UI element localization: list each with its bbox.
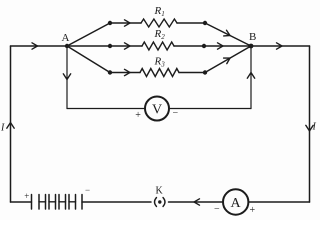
wire top-right from B to right edge (251, 45, 310, 47)
arrow up on left wire (7, 123, 14, 129)
svg-text:+: + (250, 205, 256, 216)
battery cell 2 plate A (45, 195, 47, 210)
svg-text:A: A (62, 32, 70, 44)
resistor R3 (140, 69, 179, 77)
wire left vertical (10, 46, 12, 202)
wire battery to key (82, 201, 151, 203)
arrow on branch2 right (218, 43, 224, 49)
wire diagonal branch3 to B (205, 46, 251, 73)
wire voltmeter horizontal left (67, 108, 145, 110)
svg-text:+: + (135, 110, 141, 121)
wire battery link 1 (39, 201, 46, 203)
svg-text:A: A (231, 196, 242, 211)
wire right vertical (309, 46, 311, 202)
battery cell 1 plate B (38, 195, 40, 210)
battery cell 2 plate B (48, 195, 50, 210)
arrow on diagonal branch1-B (224, 30, 230, 36)
svg-text:I: I (0, 123, 5, 134)
battery cell 1 plate A (31, 195, 33, 210)
svg-text:V: V (152, 103, 162, 118)
wire branch2 horizontal (67, 45, 251, 47)
arrow on top-left wire (32, 43, 38, 49)
arrow on branch1 (125, 20, 131, 26)
svg-text:B: B (249, 31, 256, 43)
svg-text:K: K (156, 186, 164, 197)
arrow down on right wire (306, 125, 313, 131)
battery cell 4 plate B (68, 195, 70, 210)
battery cell 4 plate A (65, 195, 67, 210)
svg-text:+: + (24, 191, 29, 201)
wire ammeter to right edge (248, 201, 309, 203)
wire voltmeter horizontal right (169, 108, 251, 110)
node dot branch3 left (108, 70, 112, 74)
arrow on branch2 left (125, 43, 131, 49)
resistor R2 (142, 42, 174, 50)
node B (249, 44, 254, 49)
voltmeter V circle (145, 97, 169, 121)
wire diagonal A to branch 3 (67, 46, 110, 73)
wire voltmeter branch right vertical (250, 46, 252, 109)
arrow up on voltmeter right vertical (247, 73, 254, 79)
wire branch3 horizontal (110, 72, 205, 74)
node dot branch1 left (108, 21, 112, 25)
battery cell 3 plate A (55, 195, 57, 210)
arrow on diagonal branch3-B (224, 58, 230, 64)
wire battery link 3 (59, 201, 66, 203)
arrow left on bottom wire (194, 199, 200, 205)
wire battery link 2 (49, 201, 56, 203)
wire branch1 horizontal (110, 22, 205, 24)
arrow down on voltmeter left vertical (63, 74, 70, 80)
wire bottom-left from left edge to battery (11, 201, 32, 203)
key K left contact arc (155, 198, 157, 207)
svg-text:−: − (214, 204, 220, 215)
resistor R1 (141, 19, 177, 27)
arrow on branch3 (125, 69, 131, 75)
svg-text:−: − (173, 108, 179, 119)
wire voltmeter branch left vertical (66, 46, 68, 109)
svg-text:I: I (312, 122, 317, 133)
key K right contact arc (163, 198, 165, 207)
battery cell 3 plate B (58, 195, 60, 210)
node dot branch2 right (202, 44, 206, 48)
wire battery link 4 (69, 201, 76, 203)
key K plug dot (158, 200, 161, 203)
ammeter A circle (223, 189, 248, 214)
node dot branch2 left (108, 44, 112, 48)
wire diagonal A to branch 1 (67, 23, 110, 46)
node A (65, 44, 69, 48)
battery cell 5 plate B (81, 195, 83, 210)
wire top-left from left edge to node A (11, 45, 68, 47)
arrow on top-right wire (277, 43, 283, 49)
battery cell 5 plate A (75, 195, 77, 210)
svg-text:−: − (85, 185, 90, 195)
wire diagonal branch1 to B (205, 23, 251, 46)
wire key to ammeter (169, 201, 224, 203)
node dot branch1 right (203, 21, 207, 25)
node dot branch3 right (203, 70, 207, 74)
